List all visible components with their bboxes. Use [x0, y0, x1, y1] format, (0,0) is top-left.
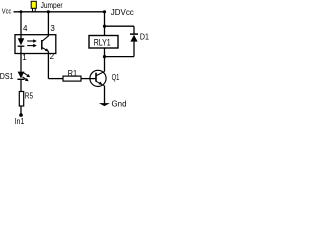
- diode D1 top lead: [133, 26, 135, 34]
- wire DS1 to R5: [20, 79, 22, 91]
- opto phototransistor collector: [42, 36, 49, 42]
- diode D1 cathode bar: [130, 33, 138, 35]
- wire JDVcc to RLY1: [104, 12, 106, 36]
- opto phototransistor emitter: [42, 47, 49, 51]
- wire Vcc to JDVcc (top rail): [14, 11, 105, 13]
- transistor Q1 emitter diagonal: [96, 81, 105, 86]
- svg-text:Q1: Q1: [112, 72, 120, 82]
- relay RLY1: [89, 36, 118, 49]
- svg-text:2: 2: [50, 52, 55, 61]
- junction at opto pin 4: [20, 10, 23, 13]
- ground terminal: [99, 103, 110, 106]
- transistor Q1 circle: [90, 70, 106, 86]
- svg-text:Jumper: Jumper: [41, 1, 63, 10]
- wire junction to D1 bottom: [105, 56, 135, 58]
- wire R5 to In1: [20, 106, 22, 114]
- LED DS1 cathode bar: [17, 78, 24, 80]
- wire junction to D1 top: [105, 25, 135, 27]
- LED DS1 light arrow upper: [24, 73, 31, 78]
- diode D1 triangle: [130, 35, 137, 42]
- junction at opto pin 3: [47, 10, 50, 13]
- node JDVcc: [103, 10, 106, 13]
- svg-text:JDVcc: JDVcc: [111, 8, 134, 17]
- svg-text:DS1: DS1: [0, 72, 14, 81]
- opto light arrow upper: [27, 39, 37, 43]
- wire opto pin 3: [47, 12, 49, 37]
- opto phototransistor base bar: [41, 40, 43, 50]
- wire opto pin 2: [47, 51, 49, 78]
- opto light arrow lower: [27, 44, 37, 48]
- resistor R5: [19, 92, 23, 107]
- optocoupler U1 box: [15, 35, 56, 54]
- transistor Q1 collector diagonal: [96, 72, 105, 76]
- svg-text:R1: R1: [68, 69, 78, 78]
- svg-text:4: 4: [23, 24, 28, 33]
- opto LED cathode bar: [18, 45, 25, 47]
- opto LED anode lead: [20, 35, 22, 40]
- opto LED triangle: [18, 38, 25, 45]
- wire opto pin 1: [20, 54, 22, 72]
- junction JDVcc/D1: [103, 25, 106, 28]
- jumper J1: [31, 1, 36, 12]
- wire R1 to Q1 base: [81, 78, 96, 80]
- transistor Q1 base bar: [95, 73, 97, 82]
- opto LED cathode lead: [20, 46, 22, 53]
- svg-text:Vcc: Vcc: [2, 6, 12, 15]
- svg-text:1: 1: [22, 53, 27, 62]
- svg-text:RLY1: RLY1: [94, 37, 111, 48]
- LED DS1 light arrow lower: [22, 77, 28, 81]
- diode D1 bottom lead: [133, 42, 135, 57]
- wire opto pin2 to R1: [48, 78, 63, 80]
- svg-text:In1: In1: [15, 117, 25, 126]
- wire RLY1 to collector node: [104, 48, 106, 72]
- terminal In1: [19, 113, 23, 117]
- LED DS1 triangle: [18, 72, 25, 79]
- svg-text:3: 3: [50, 24, 55, 33]
- resistor R1: [63, 76, 81, 81]
- wire Q1 emitter to Gnd: [104, 86, 106, 104]
- svg-text:Gnd: Gnd: [112, 100, 127, 109]
- wire opto pin 4: [20, 12, 22, 35]
- svg-text:R5: R5: [25, 91, 34, 100]
- svg-text:D1: D1: [140, 33, 149, 42]
- junction RLY1/D1/Q1: [103, 55, 106, 58]
